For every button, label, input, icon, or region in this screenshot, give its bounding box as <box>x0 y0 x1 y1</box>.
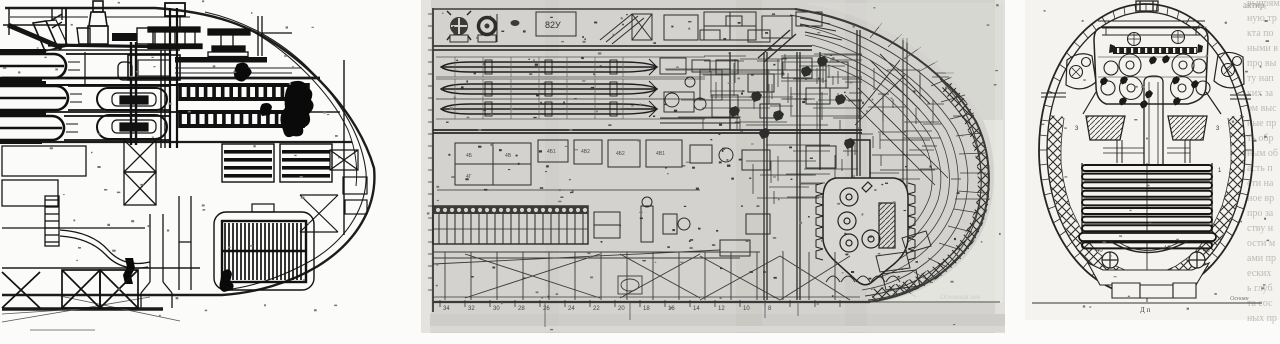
svg-text:Основн: Основн <box>1230 296 1249 302</box>
svg-text:4В2: 4В2 <box>581 149 590 155</box>
left storage boxes <box>2 146 86 176</box>
scan gray wash background <box>421 0 1005 333</box>
plan outline left edge <box>432 8 434 312</box>
machinery small boxes <box>716 58 848 256</box>
light patch right of arc <box>872 120 1003 303</box>
svg-text:Д п: Д п <box>1140 306 1151 314</box>
slanted panels <box>33 21 58 51</box>
hull ring radial ticks <box>1039 4 1253 296</box>
svg-text:28: 28 <box>518 306 525 312</box>
svg-text:кта по: кта по <box>1247 28 1274 39</box>
deck line y112 <box>2 111 340 113</box>
gear capstan 1 <box>450 17 468 35</box>
small oval fitting <box>511 20 520 26</box>
keel blocks right <box>876 231 931 290</box>
torpedo rack grill <box>1082 163 1212 302</box>
small figure dark <box>220 269 234 292</box>
tube 3 wall lines to breech <box>64 116 170 140</box>
right drawing: bow cross-section <box>1025 0 1280 320</box>
svg-text:ту нап: ту нап <box>1247 73 1274 84</box>
rail top bar <box>175 57 267 63</box>
inner wall vertical <box>343 60 345 235</box>
left drawing: submarine bow longitudinal section <box>2 8 374 322</box>
svg-text:4В: 4В <box>505 153 512 159</box>
torpedo rack rail upper <box>178 83 310 101</box>
svg-text:ное вр: ное вр <box>1247 193 1274 204</box>
shutter mechanism black blob <box>280 81 313 137</box>
shelf lines y17 <box>10 16 190 18</box>
torpedo storage rack band <box>433 197 690 244</box>
svg-text:40: 40 <box>1096 248 1103 254</box>
svg-text:22: 22 <box>593 306 600 312</box>
photocopy vertical streaks <box>736 0 762 333</box>
long drop lines <box>545 302 798 327</box>
corner vertical <box>8 8 10 35</box>
svg-text:4Б: 4Б <box>466 153 473 159</box>
top verticals right <box>258 16 262 56</box>
breech horizontals <box>40 84 180 86</box>
compartment labels <box>466 149 665 180</box>
storage rack grid left box <box>222 144 332 182</box>
svg-text:4В1: 4В1 <box>656 151 665 157</box>
bottom line <box>433 301 870 303</box>
grille vent box frame <box>214 204 314 290</box>
bottom faint diagonals <box>2 296 180 322</box>
svg-text:ами пр: ами пр <box>1247 253 1276 264</box>
svg-text:4Б2: 4Б2 <box>616 151 625 157</box>
svg-text:26: 26 <box>543 306 550 312</box>
hatch column <box>52 8 62 28</box>
diagonal ladder top right <box>758 30 796 62</box>
frame numbers <box>443 306 772 312</box>
deck line y78 <box>2 77 320 80</box>
tube circles row2 <box>1119 54 1141 76</box>
valve dark <box>123 258 135 284</box>
torpedo 1 plan view <box>436 57 705 77</box>
mast trapezoid stack <box>88 26 108 44</box>
strut lines <box>1041 93 1066 97</box>
torpedo rack rail lower <box>178 110 305 128</box>
X-brace column mid <box>124 140 156 172</box>
tube 2 wall lines to breech <box>68 86 170 110</box>
pipe curves <box>60 230 150 264</box>
small box right of rack <box>594 212 620 238</box>
svg-text:4Б1: 4Б1 <box>547 149 556 155</box>
hull frames along bow arc <box>800 25 968 290</box>
shelf line y228 <box>2 227 145 229</box>
faint bottom mark line <box>30 329 95 331</box>
breech cylinder tube2 <box>97 88 167 110</box>
baseline extension <box>870 301 1000 303</box>
lower deck line y268 <box>2 267 200 269</box>
rack grid bars <box>224 150 330 178</box>
top rack bar with rungs <box>148 27 200 32</box>
corner shelf line <box>3 24 65 26</box>
bow arc inner <box>790 15 981 296</box>
ladder left <box>45 196 59 246</box>
tube rear machinery <box>660 58 740 123</box>
trunk vertical 1 <box>141 214 172 308</box>
tube circles row1 <box>1041 31 1251 100</box>
torpedo room dome outline <box>1083 21 1221 114</box>
boxes right of mast <box>77 28 90 44</box>
keel thick line <box>2 307 163 311</box>
deck line y142 <box>2 141 352 143</box>
plan top line <box>433 8 795 10</box>
torpedo 3 shading bands <box>0 111 46 116</box>
top small box and stem <box>165 3 185 16</box>
torpedo tube 3 <box>0 116 64 140</box>
bottom bowl arcs <box>1110 241 1188 253</box>
torpedo 3 plan view <box>436 99 705 119</box>
bow boxes <box>343 177 367 194</box>
sloped brace heavy <box>8 25 62 48</box>
hull inner frame arc 1 <box>205 12 366 290</box>
bulkhead verticals <box>764 52 767 300</box>
machinery dark fittings <box>729 56 855 149</box>
outer hull oval <box>1039 4 1253 296</box>
torpedo 2 plan view <box>436 79 705 99</box>
torpedo room compartment (plan) <box>823 140 908 285</box>
deck double line <box>433 46 812 50</box>
left edge frame ticks <box>428 13 433 15</box>
dome dark rivet band <box>1113 47 1197 54</box>
center column <box>1086 76 1207 165</box>
mid deck line <box>433 130 862 133</box>
torpedo tube 1 <box>0 54 66 78</box>
top cap <box>1136 1 1158 11</box>
blob mid <box>260 103 272 116</box>
sponson left <box>1066 54 1096 89</box>
frame number ticks <box>440 300 840 307</box>
hull inner frame arc 2 <box>250 30 357 186</box>
breech door verticals <box>131 42 136 145</box>
keel platform <box>1088 263 1209 285</box>
callout marks <box>446 14 960 298</box>
svg-text:ких за: ких за <box>1247 88 1274 99</box>
radial ribs along arc <box>870 23 986 297</box>
diamond hatch band around lower hull <box>1054 116 1238 281</box>
bow arc outer <box>795 9 989 302</box>
sponson right <box>1214 52 1244 87</box>
svg-text:18: 18 <box>643 306 650 312</box>
torpedo 1 shading bands <box>0 49 46 54</box>
svg-text:ных пр: ных пр <box>1247 313 1277 324</box>
blob small upper <box>234 63 252 82</box>
svg-text:ом выс: ом выс <box>1247 103 1277 114</box>
svg-text:ную тр: ную тр <box>1247 13 1277 24</box>
dome shoulders <box>1083 92 1221 114</box>
svg-text:ству н: ству н <box>1247 223 1274 234</box>
hull outline top and bow <box>2 8 374 295</box>
bow X box <box>330 150 358 170</box>
grille top tab <box>252 204 274 212</box>
faint bleed-through text column <box>1247 0 1280 324</box>
svg-text:ными в: ными в <box>1247 43 1278 54</box>
svg-text:12: 12 <box>718 306 725 312</box>
svg-text:24: 24 <box>568 306 575 312</box>
svg-text:про вы: про вы <box>1247 58 1277 69</box>
number labels <box>1075 126 1222 254</box>
dense machinery texture <box>665 54 862 204</box>
svg-text:10: 10 <box>743 306 750 312</box>
side trapezoids hatched <box>1086 116 1125 140</box>
tube circles row3 <box>1120 77 1143 100</box>
torpedo tube 2 <box>0 86 68 110</box>
bow arc outer redraw <box>795 9 989 302</box>
dome interior guide lines <box>1098 57 1206 77</box>
gear capstan 2 <box>479 18 496 35</box>
baseline <box>1032 302 1262 304</box>
breech boxes tube1 <box>128 55 180 80</box>
svg-text:13: 13 <box>1164 246 1171 252</box>
svg-text:ь глуб: ь глуб <box>1247 283 1273 294</box>
pedestal T table <box>208 29 250 35</box>
svg-text:32: 32 <box>468 306 475 312</box>
cylinder item <box>641 206 653 242</box>
svg-text:40: 40 <box>1203 248 1210 254</box>
svg-text:актир: актир <box>1243 0 1265 10</box>
grill bottom wide tray <box>1079 233 1216 241</box>
bottom small circles <box>1102 252 1205 268</box>
tube 1 wall lines to breech <box>66 54 170 78</box>
top equipment band <box>447 11 842 44</box>
diagonals right mid <box>860 54 930 110</box>
lower band frames <box>433 250 850 300</box>
trunk vertical 2 <box>179 196 191 290</box>
room edge scallops <box>816 183 915 260</box>
inner hull oval <box>1047 12 1245 288</box>
vertical x66 <box>65 8 67 46</box>
svg-text:30: 30 <box>493 306 500 312</box>
wedge machinery near arc <box>861 68 990 199</box>
svg-text:ть обр: ть обр <box>1247 133 1274 144</box>
svg-text:14: 14 <box>693 306 700 312</box>
breech cylinder tube3 <box>97 115 167 139</box>
svg-text:20: 20 <box>618 306 625 312</box>
bottom X braces <box>2 270 138 308</box>
riveted hatch band along arc <box>872 85 984 295</box>
torpedo 2 shading bands <box>0 81 46 86</box>
grille slats <box>224 223 226 280</box>
side walls <box>1117 140 1190 163</box>
deck line y50 <box>2 49 180 51</box>
svg-text:34: 34 <box>443 306 450 312</box>
bow diagonal braces <box>300 195 338 232</box>
svg-text:про за: про за <box>1247 208 1274 219</box>
svg-text:82У: 82У <box>545 20 561 30</box>
arcs under room <box>826 276 900 282</box>
dome top band <box>1102 28 1200 35</box>
svg-text:еских: еских <box>1247 268 1271 279</box>
step bar <box>48 45 180 47</box>
svg-text:ости м: ости м <box>1247 238 1276 249</box>
compartment boxes <box>437 140 733 190</box>
under-dome cross lines <box>1103 148 1190 153</box>
dark fittings <box>1100 55 1199 109</box>
